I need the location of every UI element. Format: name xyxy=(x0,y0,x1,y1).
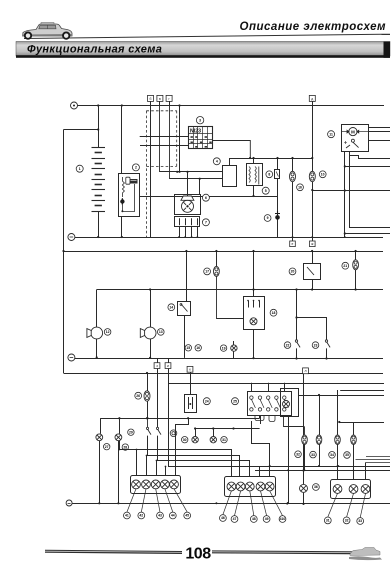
svg-text:22: 22 xyxy=(286,343,290,347)
fuse F1 vertical xyxy=(277,158,279,237)
hazard pair lamp xyxy=(195,429,197,437)
distributor cap xyxy=(182,200,194,212)
light switch block xyxy=(248,392,292,416)
svg-text:б: б xyxy=(150,97,152,101)
bus7 ground bottom xyxy=(72,503,390,505)
line y190 xyxy=(312,190,390,192)
fuse F4 bottom xyxy=(147,401,149,418)
fuse row F6 xyxy=(319,395,321,435)
connector square under bus4 b xyxy=(168,358,170,363)
svg-text:31: 31 xyxy=(222,438,226,442)
cluster2 extra feeds xyxy=(252,421,270,476)
horn feed line y289 xyxy=(97,289,383,291)
flasher lamp X1 xyxy=(100,418,102,434)
publisher logo xyxy=(349,548,382,561)
instrument box with lamp xyxy=(281,389,299,417)
door contact 1 label xyxy=(284,342,291,349)
wire motor left xyxy=(342,131,349,133)
cluster1 label wires xyxy=(127,489,136,512)
ballast label xyxy=(262,187,269,194)
side lamp feed from bus5 xyxy=(303,374,305,471)
svg-text:в: в xyxy=(159,97,161,101)
fuse F3 drop xyxy=(355,251,357,260)
ignition switch label xyxy=(132,164,139,171)
lamp L2 label xyxy=(319,171,326,178)
svg-text:25: 25 xyxy=(233,399,237,403)
sensor label xyxy=(264,215,271,222)
horn H1 to bus4 xyxy=(96,339,98,358)
horn H1 label xyxy=(104,329,111,336)
wire T3 down and right xyxy=(170,101,223,178)
relay bottom wire A xyxy=(344,152,346,238)
wire T2 down and right xyxy=(160,101,223,171)
cluster feed line y449 xyxy=(120,441,232,476)
switch box lamp xyxy=(250,318,257,325)
cluster2 labels xyxy=(220,515,227,522)
bus5 feed xyxy=(64,373,384,375)
motor M symbol xyxy=(347,128,360,136)
wiper switch labels xyxy=(203,398,210,405)
relay label xyxy=(328,131,335,138)
node minus bus2 xyxy=(68,234,75,241)
grid left stub 1 xyxy=(140,136,189,138)
wire drop to distributor cap xyxy=(199,179,201,194)
svg-text:NI23: NI23 xyxy=(190,128,201,134)
footer rule right xyxy=(212,550,366,554)
node minus bus7 xyxy=(66,500,72,506)
lamp oval L2 xyxy=(312,158,314,237)
wire ignition switch to bus2 xyxy=(121,216,123,237)
wire ballast bottom xyxy=(253,185,255,196)
svg-text:8: 8 xyxy=(268,173,270,177)
cluster3 label wires xyxy=(328,493,338,517)
tail line y422 xyxy=(339,422,384,424)
svg-text:30: 30 xyxy=(183,438,187,442)
lamp L1 label xyxy=(297,184,304,191)
fuse F4 oval xyxy=(144,391,150,401)
footer rule left xyxy=(45,550,182,554)
fuse row F7 xyxy=(337,390,339,435)
connector square under bus4 a xyxy=(157,358,159,363)
dashed harness box xyxy=(146,111,176,237)
fuse F4 label xyxy=(135,392,142,399)
stub y166 xyxy=(345,166,390,168)
horn H2 to bus4 xyxy=(150,339,152,358)
side lamp single xyxy=(303,471,305,485)
svg-text:Описание электросхем: Описание электросхем xyxy=(240,21,386,33)
relay bottom wire B xyxy=(350,152,391,228)
battery GB plates xyxy=(92,147,106,149)
washer motor relay box xyxy=(342,125,369,152)
terminal square T1 xyxy=(148,95,154,101)
wire square-i down xyxy=(168,369,170,419)
svg-text:31: 31 xyxy=(326,519,330,523)
svg-text:17: 17 xyxy=(205,270,209,274)
svg-text:27: 27 xyxy=(105,445,109,449)
fuse F2 wire to switch box xyxy=(217,276,244,318)
horn H2 xyxy=(140,327,156,339)
relay K2 box xyxy=(304,264,321,280)
svg-text:34: 34 xyxy=(330,453,334,457)
wire down to coil box xyxy=(229,158,231,166)
junction bus1-battery xyxy=(97,104,99,106)
column switch contact 2 xyxy=(156,369,161,435)
relay K2 label xyxy=(289,268,296,275)
svg-text:18: 18 xyxy=(272,311,276,315)
svg-text:д: д xyxy=(311,97,313,101)
wire bus1 drop to coil line xyxy=(179,106,181,172)
door contact switch 1 xyxy=(295,340,300,359)
svg-text:и: и xyxy=(167,364,169,368)
stub y158 right xyxy=(350,156,391,159)
svg-text:16: 16 xyxy=(298,186,302,190)
light block bottom hooks xyxy=(269,416,275,422)
distributor rotor xyxy=(181,196,194,200)
relay K2 bottom xyxy=(312,279,314,289)
relay contact xyxy=(344,139,359,148)
hazard pair circle xyxy=(182,437,188,443)
lamp oval L1 xyxy=(292,158,294,237)
fuse F2 oval xyxy=(214,266,220,276)
svg-text:43: 43 xyxy=(158,514,162,518)
ballast resistor box xyxy=(247,164,263,186)
wiper switch box xyxy=(185,395,197,413)
cluster feed line y460 xyxy=(158,436,250,477)
battery label xyxy=(76,165,83,172)
svg-text:36: 36 xyxy=(314,485,318,489)
wire branch to left rail xyxy=(64,129,99,131)
connector square on bus5 xyxy=(187,366,193,372)
fuse F3 label xyxy=(342,262,349,269)
horn relay to bus4 xyxy=(184,315,186,358)
bus7 junctions xyxy=(215,502,217,504)
svg-text:2: 2 xyxy=(135,166,137,170)
ignition switch internals xyxy=(120,177,137,212)
svg-text:1: 1 xyxy=(79,167,81,171)
terminal square T2 xyxy=(157,95,163,101)
door contact branch xyxy=(297,290,327,341)
horn relay K1 box xyxy=(178,302,191,316)
vintage car logo xyxy=(23,23,73,39)
svg-text:10: 10 xyxy=(321,173,325,177)
svg-text:42: 42 xyxy=(139,514,143,518)
wire ignition switch drop xyxy=(121,106,123,174)
svg-text:3: 3 xyxy=(199,118,201,122)
flasher X2 label xyxy=(122,444,128,450)
svg-text:21: 21 xyxy=(343,264,347,268)
relay line fuse labels xyxy=(185,345,191,351)
fuse row F8 xyxy=(353,422,355,435)
svg-text:4: 4 xyxy=(216,160,218,164)
cluster1 labels xyxy=(124,512,131,519)
svg-text:15: 15 xyxy=(186,346,190,350)
svg-text:26: 26 xyxy=(136,394,140,398)
plug block label xyxy=(202,219,209,226)
svg-text:44: 44 xyxy=(171,514,175,518)
feed line y158 xyxy=(229,158,312,160)
coil label xyxy=(213,158,220,165)
svg-text:Функциональная схема: Функциональная схема xyxy=(27,43,162,55)
svg-text:14: 14 xyxy=(169,305,173,309)
svg-text:9: 9 xyxy=(267,216,269,220)
svg-text:19: 19 xyxy=(222,346,226,350)
wire ballast top xyxy=(253,158,255,164)
X3 label xyxy=(221,437,227,443)
tail feed line y390 xyxy=(340,390,384,392)
relay K2 drop xyxy=(312,251,314,264)
right stair lines xyxy=(366,456,390,458)
svg-text:32: 32 xyxy=(345,519,349,523)
svg-text:16: 16 xyxy=(196,346,200,350)
bus4 ground return 2 xyxy=(75,358,383,360)
svg-text:5: 5 xyxy=(265,189,267,193)
ignition lock contact grid xyxy=(188,127,212,149)
left rail xyxy=(63,130,65,374)
node A battery positive xyxy=(71,102,78,109)
fuse F2 label xyxy=(204,268,211,275)
connector squares under bus2 xyxy=(292,237,294,241)
cluster3 feeds xyxy=(337,465,339,467)
wire drop to distributor rotor xyxy=(187,172,189,196)
svg-text:23: 23 xyxy=(314,343,318,347)
node minus bus4 xyxy=(68,354,75,361)
horn relay K1 drop xyxy=(186,251,188,301)
svg-text:е: е xyxy=(292,242,294,246)
svg-text:48: 48 xyxy=(252,517,256,521)
svg-text:20: 20 xyxy=(291,270,295,274)
fuse F2 drop from bus3 xyxy=(216,251,218,266)
svg-text:13: 13 xyxy=(159,330,163,334)
bus3 section2 feed xyxy=(64,251,384,253)
svg-text:410: 410 xyxy=(280,517,286,521)
line y382 xyxy=(168,383,384,385)
wire battery to bus2 xyxy=(98,211,100,237)
horn H2 label xyxy=(158,329,165,336)
svg-text:49: 49 xyxy=(265,517,269,521)
svg-text:35: 35 xyxy=(345,453,349,457)
light block top wires xyxy=(251,383,253,392)
line y196 low-voltage xyxy=(139,196,277,198)
cluster2 lamps xyxy=(227,482,236,491)
svg-text:7: 7 xyxy=(205,221,207,225)
svg-text:11: 11 xyxy=(329,132,333,136)
door contact 2 label xyxy=(312,342,319,349)
svg-text:33: 33 xyxy=(311,453,315,457)
column switch contact 1 xyxy=(146,418,151,434)
cluster feed line y466 xyxy=(169,419,260,476)
spark plug block xyxy=(175,217,200,227)
connector square right on bus5 xyxy=(303,368,309,374)
fuse F1 label xyxy=(266,171,273,178)
sensor dark symbol xyxy=(275,211,280,220)
switch box label xyxy=(270,309,277,316)
svg-text:12: 12 xyxy=(106,330,110,334)
cluster3 labels xyxy=(324,517,331,524)
svg-text:33: 33 xyxy=(358,519,362,523)
cluster1 lamp5 feed xyxy=(176,419,189,476)
stop switch box xyxy=(244,297,265,330)
cluster1 lamps xyxy=(132,480,141,489)
ignition switch S1 box xyxy=(119,174,140,217)
svg-text:M: M xyxy=(351,129,355,134)
wire T1 down xyxy=(150,101,152,237)
junction bus1 drop x179 xyxy=(178,104,180,106)
bus2 ground return xyxy=(75,237,383,239)
instrument box to bus7 xyxy=(288,417,290,503)
cluster2 label wires xyxy=(223,491,232,515)
tail lines y465 y470 xyxy=(255,466,390,468)
fuse F4 drop xyxy=(147,373,149,391)
grid right wire to coil feed xyxy=(212,141,250,159)
horn H2 drop xyxy=(150,290,152,328)
fuse F1 body xyxy=(275,170,280,179)
horn relay label xyxy=(168,304,175,311)
svg-text:29: 29 xyxy=(129,430,133,434)
tail feed line y395 xyxy=(299,395,384,397)
lamp cluster 3 box xyxy=(331,480,371,499)
bus1 main positive feed xyxy=(78,105,385,107)
distributor label xyxy=(202,194,209,201)
relay right stubs xyxy=(369,127,391,129)
svg-text:6: 6 xyxy=(205,196,207,200)
grid left stub 2 xyxy=(140,145,188,147)
cluster feed line y455 xyxy=(148,436,240,477)
fuse row labels xyxy=(295,451,302,458)
terminal square T4 right xyxy=(309,95,315,101)
wiper switch drop xyxy=(190,372,192,394)
stub y233 xyxy=(345,233,390,235)
stop switch box drop xyxy=(253,251,255,297)
svg-text:47: 47 xyxy=(233,517,237,521)
bottom small lamp xyxy=(220,345,226,351)
svg-text:45: 45 xyxy=(185,514,189,518)
svg-text:46: 46 xyxy=(221,516,225,520)
lamp cluster 2 box xyxy=(225,477,276,497)
svg-text:28: 28 xyxy=(123,445,127,449)
turn lamp X3 xyxy=(213,429,215,437)
header rule line xyxy=(24,34,390,38)
svg-text:108: 108 xyxy=(185,546,211,563)
line y418 xyxy=(100,418,259,420)
svg-text:41: 41 xyxy=(125,514,129,518)
switch box to bus4 xyxy=(253,329,255,358)
terminal square T3 xyxy=(166,95,172,101)
svg-text:л: л xyxy=(305,369,307,373)
fuse F3 bottom xyxy=(355,270,357,290)
horn H1 xyxy=(87,327,103,339)
cluster3 lamps xyxy=(333,485,342,494)
fuse F3 oval xyxy=(353,260,359,270)
spark plug wires to bus2 xyxy=(179,227,181,237)
side lamp label xyxy=(313,484,320,491)
distributor assembly box xyxy=(175,195,201,215)
grid label xyxy=(196,117,203,124)
horn H1 drop xyxy=(96,290,98,328)
junction bus1-ignition switch xyxy=(121,104,123,106)
door contact switch 2 xyxy=(325,340,330,359)
ignition coil box xyxy=(223,166,237,187)
line y428 xyxy=(195,428,260,430)
flasher lamp X2 xyxy=(119,418,121,434)
flasher X1 label xyxy=(104,444,110,450)
svg-text:24: 24 xyxy=(205,399,209,403)
contact1 label xyxy=(128,429,134,435)
fuse row F5 xyxy=(304,427,306,435)
svg-text:32: 32 xyxy=(296,452,300,456)
lamp cluster 1 box xyxy=(131,476,181,494)
contact2 label xyxy=(170,430,177,437)
wire battery drop xyxy=(98,106,100,148)
